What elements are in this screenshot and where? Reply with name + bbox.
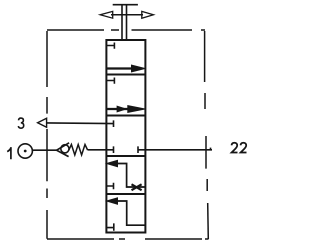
- box4 plugged port stub: [106, 183, 113, 190]
- check valve seat: [57, 143, 70, 157]
- check valve spring: [69, 145, 88, 156]
- box4 closed crossing X: [132, 184, 142, 190]
- port 3 arrowhead (hollow): [38, 118, 47, 127]
- exhaust flow arrow shaft: [111, 14, 143, 16]
- wire valve to port 22: [145, 149, 212, 151]
- exhaust channel double line: [122, 5, 127, 40]
- port 22 end tick: [210, 148, 212, 150]
- enclosure dashed border right: [205, 31, 209, 239]
- position divider 1/2: [106, 74, 145, 76]
- enclosure dashed border left: [46, 31, 48, 239]
- port 1 source circle: [18, 144, 32, 158]
- position divider 4/5: [106, 193, 145, 195]
- exhaust cap line: [113, 4, 138, 6]
- box1 flow arrow: [106, 67, 134, 69]
- wire port1 to check valve: [32, 149, 56, 151]
- label 3: [18, 118, 23, 128]
- check valve ball: [61, 145, 69, 153]
- box3 port22 plugged stub: [138, 146, 145, 153]
- port 3 line into box3: [47, 120, 114, 127]
- box3 port1 plugged stub: [106, 146, 113, 153]
- enclosure dashed border bottom: [47, 238, 209, 240]
- enclosure dashed border top: [47, 29, 205, 31]
- label 1: [7, 148, 11, 159]
- valve body outline: [106, 40, 145, 233]
- wire spring to valve body: [88, 149, 107, 151]
- exhaust arrowhead right (hollow): [142, 11, 154, 18]
- box4 flow path with left arrow: [117, 164, 146, 188]
- box2 plugged port stub: [106, 78, 114, 84]
- box1 plugged port stub: [106, 43, 114, 49]
- exhaust arrowhead left (hollow): [100, 11, 113, 18]
- box2 double flow arrow: [106, 108, 130, 110]
- position divider 3/4: [106, 155, 145, 157]
- box5 flow path with left arrow: [117, 201, 146, 225]
- box5 plugged port stub: [106, 223, 113, 230]
- label 22: [232, 143, 238, 153]
- position divider 2/3: [106, 115, 145, 117]
